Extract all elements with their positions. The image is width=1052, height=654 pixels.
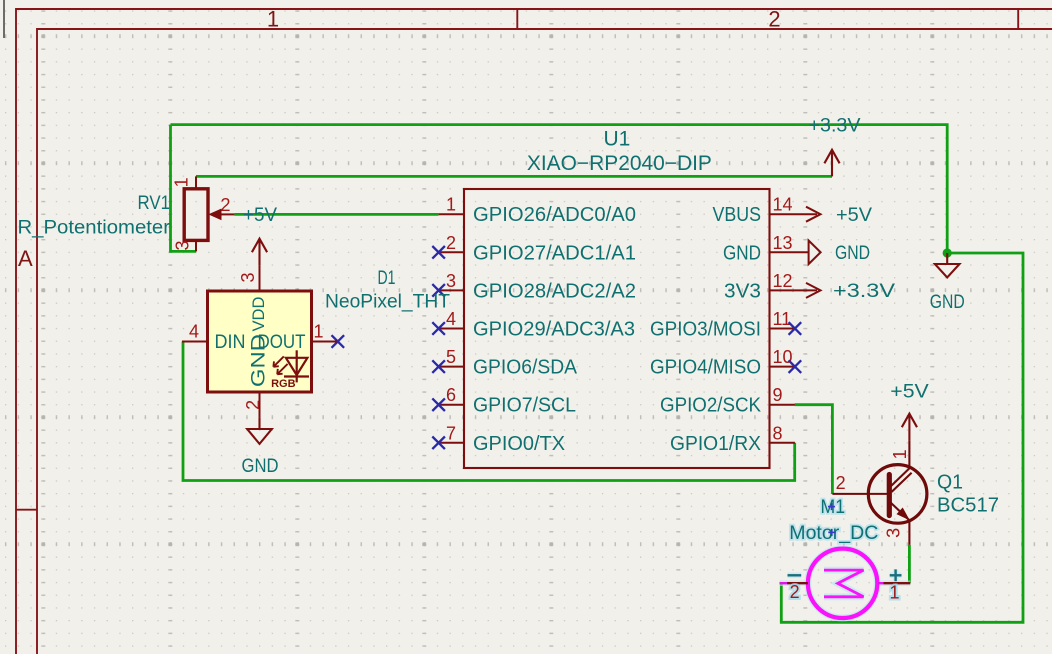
svg-text:GPIO29/ADC3/A3: GPIO29/ADC3/A3 <box>473 319 635 341</box>
svg-text:6: 6 <box>446 385 456 405</box>
svg-text:3: 3 <box>173 240 193 250</box>
svg-text:2: 2 <box>768 7 780 32</box>
svg-text:M1: M1 <box>821 497 846 518</box>
svg-text:GPIO6/SDA: GPIO6/SDA <box>473 357 578 379</box>
svg-text:DIN: DIN <box>215 332 246 353</box>
svg-text:GND: GND <box>930 292 965 313</box>
svg-text:10: 10 <box>773 347 793 367</box>
svg-text:8: 8 <box>773 423 783 443</box>
svg-text:R_Potentiometer: R_Potentiometer <box>18 218 171 239</box>
svg-text:GPIO26/ADC0/A0: GPIO26/ADC0/A0 <box>473 204 636 226</box>
svg-text:U1: U1 <box>603 128 630 151</box>
svg-text:GND: GND <box>723 242 761 264</box>
svg-text:1: 1 <box>889 583 899 603</box>
svg-text:RV1: RV1 <box>138 193 171 214</box>
svg-text:XIAO−RP2040−DIP: XIAO−RP2040−DIP <box>527 152 712 175</box>
svg-text:2: 2 <box>220 195 230 215</box>
svg-text:13: 13 <box>773 233 793 253</box>
svg-text:2: 2 <box>243 400 263 410</box>
svg-text:GPIO0/TX: GPIO0/TX <box>473 433 565 455</box>
svg-text:+3.3V: +3.3V <box>833 281 895 302</box>
svg-text:GPIO4/MISO: GPIO4/MISO <box>650 357 761 379</box>
svg-text:9: 9 <box>773 385 783 405</box>
svg-text:GPIO2/SCK: GPIO2/SCK <box>660 395 762 417</box>
svg-text:+5V: +5V <box>890 382 929 403</box>
svg-text:3: 3 <box>238 272 258 282</box>
svg-text:+3.3V: +3.3V <box>809 116 861 137</box>
svg-text:Motor_DC: Motor_DC <box>789 523 878 544</box>
svg-text:3V3: 3V3 <box>724 280 761 302</box>
svg-text:2: 2 <box>446 233 456 253</box>
svg-text:GPIO27/ADC1/A1: GPIO27/ADC1/A1 <box>473 242 636 264</box>
svg-text:2: 2 <box>790 582 800 602</box>
svg-text:1: 1 <box>172 177 192 187</box>
svg-text:+5V: +5V <box>836 205 872 226</box>
svg-text:3: 3 <box>883 528 903 538</box>
svg-text:GPIO7/SCL: GPIO7/SCL <box>473 395 576 417</box>
svg-text:7: 7 <box>446 423 456 443</box>
svg-text:GPIO3/MOSI: GPIO3/MOSI <box>650 319 761 341</box>
svg-text:VBUS: VBUS <box>713 204 762 226</box>
svg-text:1: 1 <box>890 449 910 459</box>
svg-text:12: 12 <box>773 271 793 291</box>
svg-text:VDD: VDD <box>249 297 268 332</box>
svg-text:14: 14 <box>773 195 793 215</box>
svg-text:5: 5 <box>446 347 456 367</box>
svg-text:BC517: BC517 <box>937 495 999 517</box>
svg-text:+5V: +5V <box>243 205 277 226</box>
svg-text:GND: GND <box>242 456 279 477</box>
svg-text:4: 4 <box>189 321 199 341</box>
svg-text:GND: GND <box>835 243 870 264</box>
svg-text:2: 2 <box>836 473 846 493</box>
svg-text:D1: D1 <box>378 268 396 289</box>
svg-text:GPIO28/ADC2/A2: GPIO28/ADC2/A2 <box>473 280 636 302</box>
svg-text:GND: GND <box>249 334 270 387</box>
svg-text:GPIO1/RX: GPIO1/RX <box>670 433 761 455</box>
svg-text:NeoPixel_THT: NeoPixel_THT <box>325 292 450 313</box>
svg-text:RGB: RGB <box>271 378 296 390</box>
svg-text:1: 1 <box>267 7 279 32</box>
svg-text:3: 3 <box>446 271 456 291</box>
svg-text:1: 1 <box>446 195 456 215</box>
svg-text:1: 1 <box>313 321 323 341</box>
svg-text:Q1: Q1 <box>937 471 963 493</box>
svg-text:11: 11 <box>773 309 792 329</box>
svg-text:A: A <box>18 246 33 271</box>
